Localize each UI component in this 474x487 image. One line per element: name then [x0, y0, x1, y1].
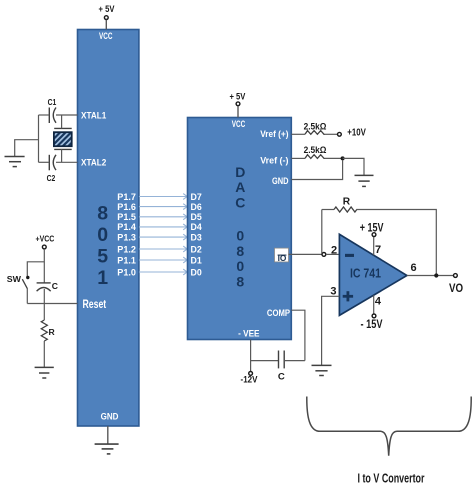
terminal +5V (DAC) [236, 102, 240, 106]
pin label XTAL2 [81, 158, 106, 168]
svg-text:R: R [48, 327, 55, 337]
pin label P1.4 [117, 222, 136, 232]
pin label VCC (8051) [99, 31, 113, 41]
pin label GND (DAC) [272, 176, 289, 186]
svg-text:0: 0 [236, 228, 244, 244]
svg-text:C2: C2 [47, 173, 56, 183]
label IC 741 [350, 267, 381, 281]
pin IO box [275, 248, 289, 263]
svg-text:COMP: COMP [267, 308, 290, 318]
switch SW lever [22, 279, 27, 288]
svg-text:XTAL2: XTAL2 [81, 158, 106, 168]
capacitor C (reset) [37, 283, 51, 291]
supply +5V label (8051) [99, 4, 115, 14]
pin label D6 [191, 202, 202, 212]
svg-text:P1.5: P1.5 [117, 212, 136, 222]
wire crystal top stub [61, 115, 63, 128]
pin number 4 [375, 295, 382, 307]
junction node output [434, 273, 438, 277]
svg-text:XTAL1: XTAL1 [81, 110, 106, 120]
label I to V Convertor [358, 471, 425, 485]
svg-text:+VCC: +VCC [36, 233, 55, 243]
node pin2 terminal [322, 253, 326, 257]
pin label D5 [191, 212, 202, 222]
wire left rail crystal [38, 115, 40, 162]
wire pin 3 left [322, 296, 340, 365]
wire P1.6 to D6 [139, 204, 187, 210]
svg-text:+ 15V: + 15V [360, 222, 384, 234]
label R (feedback) [343, 197, 351, 208]
wire rail to ground [15, 140, 39, 156]
ground (Vref) [355, 175, 374, 186]
svg-text:P1.0: P1.0 [117, 267, 136, 277]
pin label D4 [191, 222, 202, 232]
terminal VO [454, 274, 458, 278]
wire P1.0 to D0 [139, 269, 187, 275]
pin label VCC (DAC) [232, 119, 246, 129]
wire IO to node 2 [289, 253, 323, 255]
label C2 [47, 173, 56, 183]
wire 8051 GND to ground [107, 426, 109, 444]
svg-text:A: A [235, 179, 245, 195]
op-amp minus input symbol [345, 254, 354, 257]
wire XTAL1 [56, 114, 78, 116]
pin label COMP [267, 308, 290, 318]
svg-text:GND: GND [272, 176, 289, 186]
svg-text:0: 0 [236, 258, 244, 274]
crystal Y1 body [54, 132, 72, 146]
terminal -15V [372, 314, 376, 318]
capacitor C1 [49, 108, 56, 124]
resistor 2.5k (Vref-) [305, 155, 324, 159]
junction node Vref- [341, 156, 345, 160]
svg-text:1: 1 [97, 267, 108, 289]
ground (crystal) [5, 157, 25, 167]
wire resistor to +10V terminal [325, 133, 338, 135]
wire XTAL2 [56, 161, 78, 163]
label SW [7, 274, 22, 284]
resistor R (reset) [41, 320, 47, 341]
wire switch top branch [27, 262, 44, 276]
svg-text:6: 6 [410, 262, 416, 274]
pin label P1.6 [117, 202, 136, 212]
svg-text:GND: GND [101, 412, 119, 422]
svg-text:IC 741: IC 741 [350, 267, 381, 281]
pin label D3 [191, 232, 202, 242]
supply +VCC label (reset) [36, 233, 55, 243]
pin label GND (8051) [101, 412, 119, 422]
svg-text:C: C [235, 195, 245, 211]
svg-text:I to V Convertor: I to V Convertor [358, 471, 425, 485]
label C1 [48, 97, 57, 107]
ground (pin 3) [312, 365, 332, 375]
wire reset node [27, 303, 77, 305]
svg-text:+ 5V: + 5V [99, 4, 115, 14]
label C (reset) [52, 281, 58, 291]
svg-text:P1.4: P1.4 [117, 222, 136, 232]
terminal +15V [372, 233, 376, 237]
pin label P1.5 [117, 212, 136, 222]
svg-text:0: 0 [97, 224, 108, 246]
wire +15V to pin 7 [373, 237, 375, 255]
pin label D7 [191, 192, 202, 202]
pin label D1 [191, 255, 202, 265]
switch SW contact [26, 276, 29, 279]
label +10V [347, 127, 366, 139]
wire node to ground [343, 158, 364, 175]
svg-text:Vref (-): Vref (-) [260, 155, 288, 165]
svg-text:C: C [52, 281, 58, 291]
svg-text:D2: D2 [191, 244, 202, 254]
wire resistor to node [325, 157, 343, 159]
wire DAC GND pin to node [291, 160, 342, 180]
label +15V [360, 222, 384, 234]
pin label P1.2 [117, 244, 136, 254]
wire +5V to 8051 VCC [105, 20, 107, 30]
wire -VEE down [251, 340, 279, 361]
wire Vref+ to resistor [291, 133, 305, 135]
svg-text:D4: D4 [191, 222, 202, 232]
svg-text:D6: D6 [191, 202, 202, 212]
svg-text:C1: C1 [48, 97, 57, 107]
IC name DAC 0808 vertical [235, 164, 245, 289]
pin number 3 [330, 285, 336, 297]
wire R to ground [43, 341, 45, 367]
pin number 2 [331, 244, 337, 256]
wire feedback top left [322, 209, 334, 211]
pin label XTAL1 [81, 110, 106, 120]
wire C1 to rail [39, 114, 50, 116]
svg-text:5: 5 [97, 246, 108, 268]
pin label D0 [191, 267, 202, 277]
label R (reset) [48, 327, 55, 337]
crystal Y1 bottom electrode [54, 148, 71, 150]
svg-text:P1.3: P1.3 [117, 232, 136, 242]
pin label P1.3 [117, 232, 136, 242]
wire capacitor right to COMP vertical [284, 360, 305, 362]
svg-text:D0: D0 [191, 267, 202, 277]
svg-text:8: 8 [236, 273, 244, 289]
label 2.5kOhm (Vref+) [304, 120, 327, 131]
svg-text:+ 5V: + 5V [229, 92, 245, 102]
wire +5V to DAC VCC [237, 106, 239, 118]
wire crystal bottom stub [61, 149, 63, 162]
capacitor C2 [49, 155, 56, 171]
svg-text:P1.7: P1.7 [117, 192, 136, 202]
svg-text:C: C [278, 372, 285, 383]
pin label Reset [83, 297, 107, 311]
wire feedback left vertical [321, 210, 323, 254]
IC U2 DAC0808 body [188, 118, 292, 340]
wire pin 4 to -15V [373, 295, 375, 313]
svg-text:- 15V: - 15V [361, 319, 383, 331]
svg-text:SW: SW [7, 274, 22, 284]
svg-text:-12V: -12V [241, 375, 258, 386]
pin number 6 [410, 262, 416, 274]
wire -VEE to -12V terminal [250, 361, 252, 372]
wire P1.3 to D3 [139, 234, 187, 240]
label C (COMP) [278, 372, 285, 383]
pin label D2 [191, 244, 202, 254]
supply +5V label (DAC) [229, 92, 245, 102]
wire C2 to rail [39, 161, 50, 163]
terminal +10V [338, 132, 342, 136]
wire node to op-amp pin 2 [326, 253, 340, 255]
svg-text:P1.2: P1.2 [117, 244, 136, 254]
svg-text:2: 2 [331, 244, 337, 256]
wire switch bottom to reset wire [26, 288, 28, 303]
wire COMP to capacitor [291, 310, 305, 360]
terminal +VCC [42, 245, 46, 249]
wire P1.7 to D7 [139, 194, 187, 200]
op-amp U3 IC 741 [339, 234, 407, 315]
svg-text:+10V: +10V [347, 127, 366, 139]
wire P1.1 to D1 [139, 257, 187, 263]
IC U1 8051 body [78, 30, 139, 427]
wire capacitor to resistor R [43, 289, 45, 320]
resistor 2.5k (Vref+) [305, 131, 324, 135]
wire feedback top right [356, 210, 436, 274]
svg-text:Reset: Reset [83, 297, 107, 311]
pin label Vref (-) [260, 155, 288, 165]
svg-text:VO: VO [449, 283, 463, 295]
svg-text:D: D [235, 164, 245, 180]
resistor R (feedback) [334, 207, 357, 212]
terminal +5V (8051) [104, 16, 108, 20]
wire P1.2 to D2 [139, 246, 187, 252]
svg-text:3: 3 [330, 285, 336, 297]
svg-text:2.5kΩ: 2.5kΩ [304, 144, 327, 155]
svg-text:Vref (+): Vref (+) [260, 129, 288, 139]
svg-text:8: 8 [97, 202, 108, 224]
pin number 7 [375, 244, 381, 256]
svg-text:D5: D5 [191, 212, 202, 222]
svg-text:VCC: VCC [99, 31, 113, 41]
pin label Vref (+) [260, 129, 288, 139]
ground (reset) [35, 367, 54, 378]
brace I to V convertor [307, 397, 471, 456]
label 2.5kOhm (Vref-) [304, 144, 327, 155]
terminal -12V [249, 372, 253, 376]
svg-text:4: 4 [375, 295, 382, 307]
capacitor C (COMP) [279, 351, 285, 369]
ground (8051) [95, 444, 119, 454]
pin label -VEE [238, 329, 259, 339]
wire Vref- to resistor [291, 157, 305, 159]
svg-text:8: 8 [236, 243, 244, 259]
svg-text:D3: D3 [191, 232, 202, 242]
svg-text:- VEE: - VEE [238, 329, 259, 339]
svg-text:D7: D7 [191, 192, 202, 202]
crystal Y1 top electrode [54, 127, 71, 129]
IC name 8051 vertical [97, 202, 108, 289]
svg-text:7: 7 [375, 244, 381, 256]
wire +VCC down to capacitor C [43, 249, 45, 283]
svg-text:2.5kΩ: 2.5kΩ [304, 120, 327, 131]
pin label P1.1 [117, 255, 136, 265]
label VO [449, 283, 463, 295]
pin label P1.0 [117, 267, 136, 277]
pin label P1.7 [117, 192, 136, 202]
svg-text:P1.6: P1.6 [117, 202, 136, 212]
svg-text:VCC: VCC [232, 119, 246, 129]
wire P1.4 to D4 [139, 224, 187, 230]
svg-text:P1.1: P1.1 [117, 255, 136, 265]
label -15V [361, 319, 383, 331]
svg-text:D1: D1 [191, 255, 202, 265]
svg-text:R: R [343, 197, 351, 208]
label -12V [241, 375, 258, 386]
op-amp plus input symbol [343, 291, 353, 301]
wire output pin 6 [407, 275, 453, 277]
wire P1.5 to D5 [139, 214, 187, 220]
